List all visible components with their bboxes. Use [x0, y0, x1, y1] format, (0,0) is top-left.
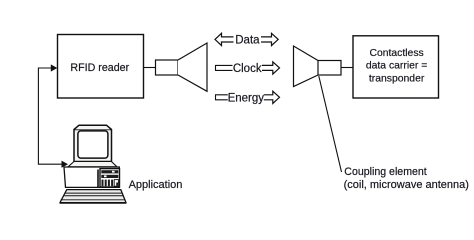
svg-text:Contactless: Contactless — [369, 48, 423, 59]
clock right arrow — [262, 62, 280, 74]
reader antenna horn — [156, 43, 208, 91]
computer monitor — [74, 125, 112, 161]
transponder box — [353, 36, 439, 98]
arrowhead into reader box — [51, 64, 58, 71]
svg-text:data carrier =: data carrier = — [366, 61, 428, 72]
RFID reader box — [58, 35, 144, 99]
energy tail — [216, 95, 228, 100]
data right arrow — [261, 33, 278, 45]
svg-text:Data: Data — [235, 34, 260, 46]
clock tail — [216, 65, 233, 70]
svg-text:Application: Application — [129, 179, 183, 191]
computer drive bays — [98, 169, 120, 187]
computer system unit — [64, 167, 119, 187]
svg-text:Energy: Energy — [228, 92, 265, 104]
svg-text:(coil, microwave antenna): (coil, microwave antenna) — [344, 179, 469, 191]
transponder antenna horn — [294, 46, 342, 87]
svg-text:Clock: Clock — [233, 63, 262, 75]
wire antenna to transponder — [341, 67, 353, 69]
wire reader to antenna — [144, 67, 156, 69]
coupling element leader line — [319, 76, 342, 172]
wire application to reader — [38, 68, 61, 164]
svg-text:RFID reader: RFID reader — [70, 62, 129, 74]
computer monitor base flare — [68, 162, 117, 167]
data left arrow — [215, 33, 234, 45]
arrowhead into computer — [62, 161, 69, 168]
computer keyboard — [60, 190, 127, 203]
energy right arrow — [264, 91, 280, 103]
svg-text:transponder: transponder — [369, 73, 425, 84]
svg-text:Coupling element: Coupling element — [344, 166, 427, 178]
